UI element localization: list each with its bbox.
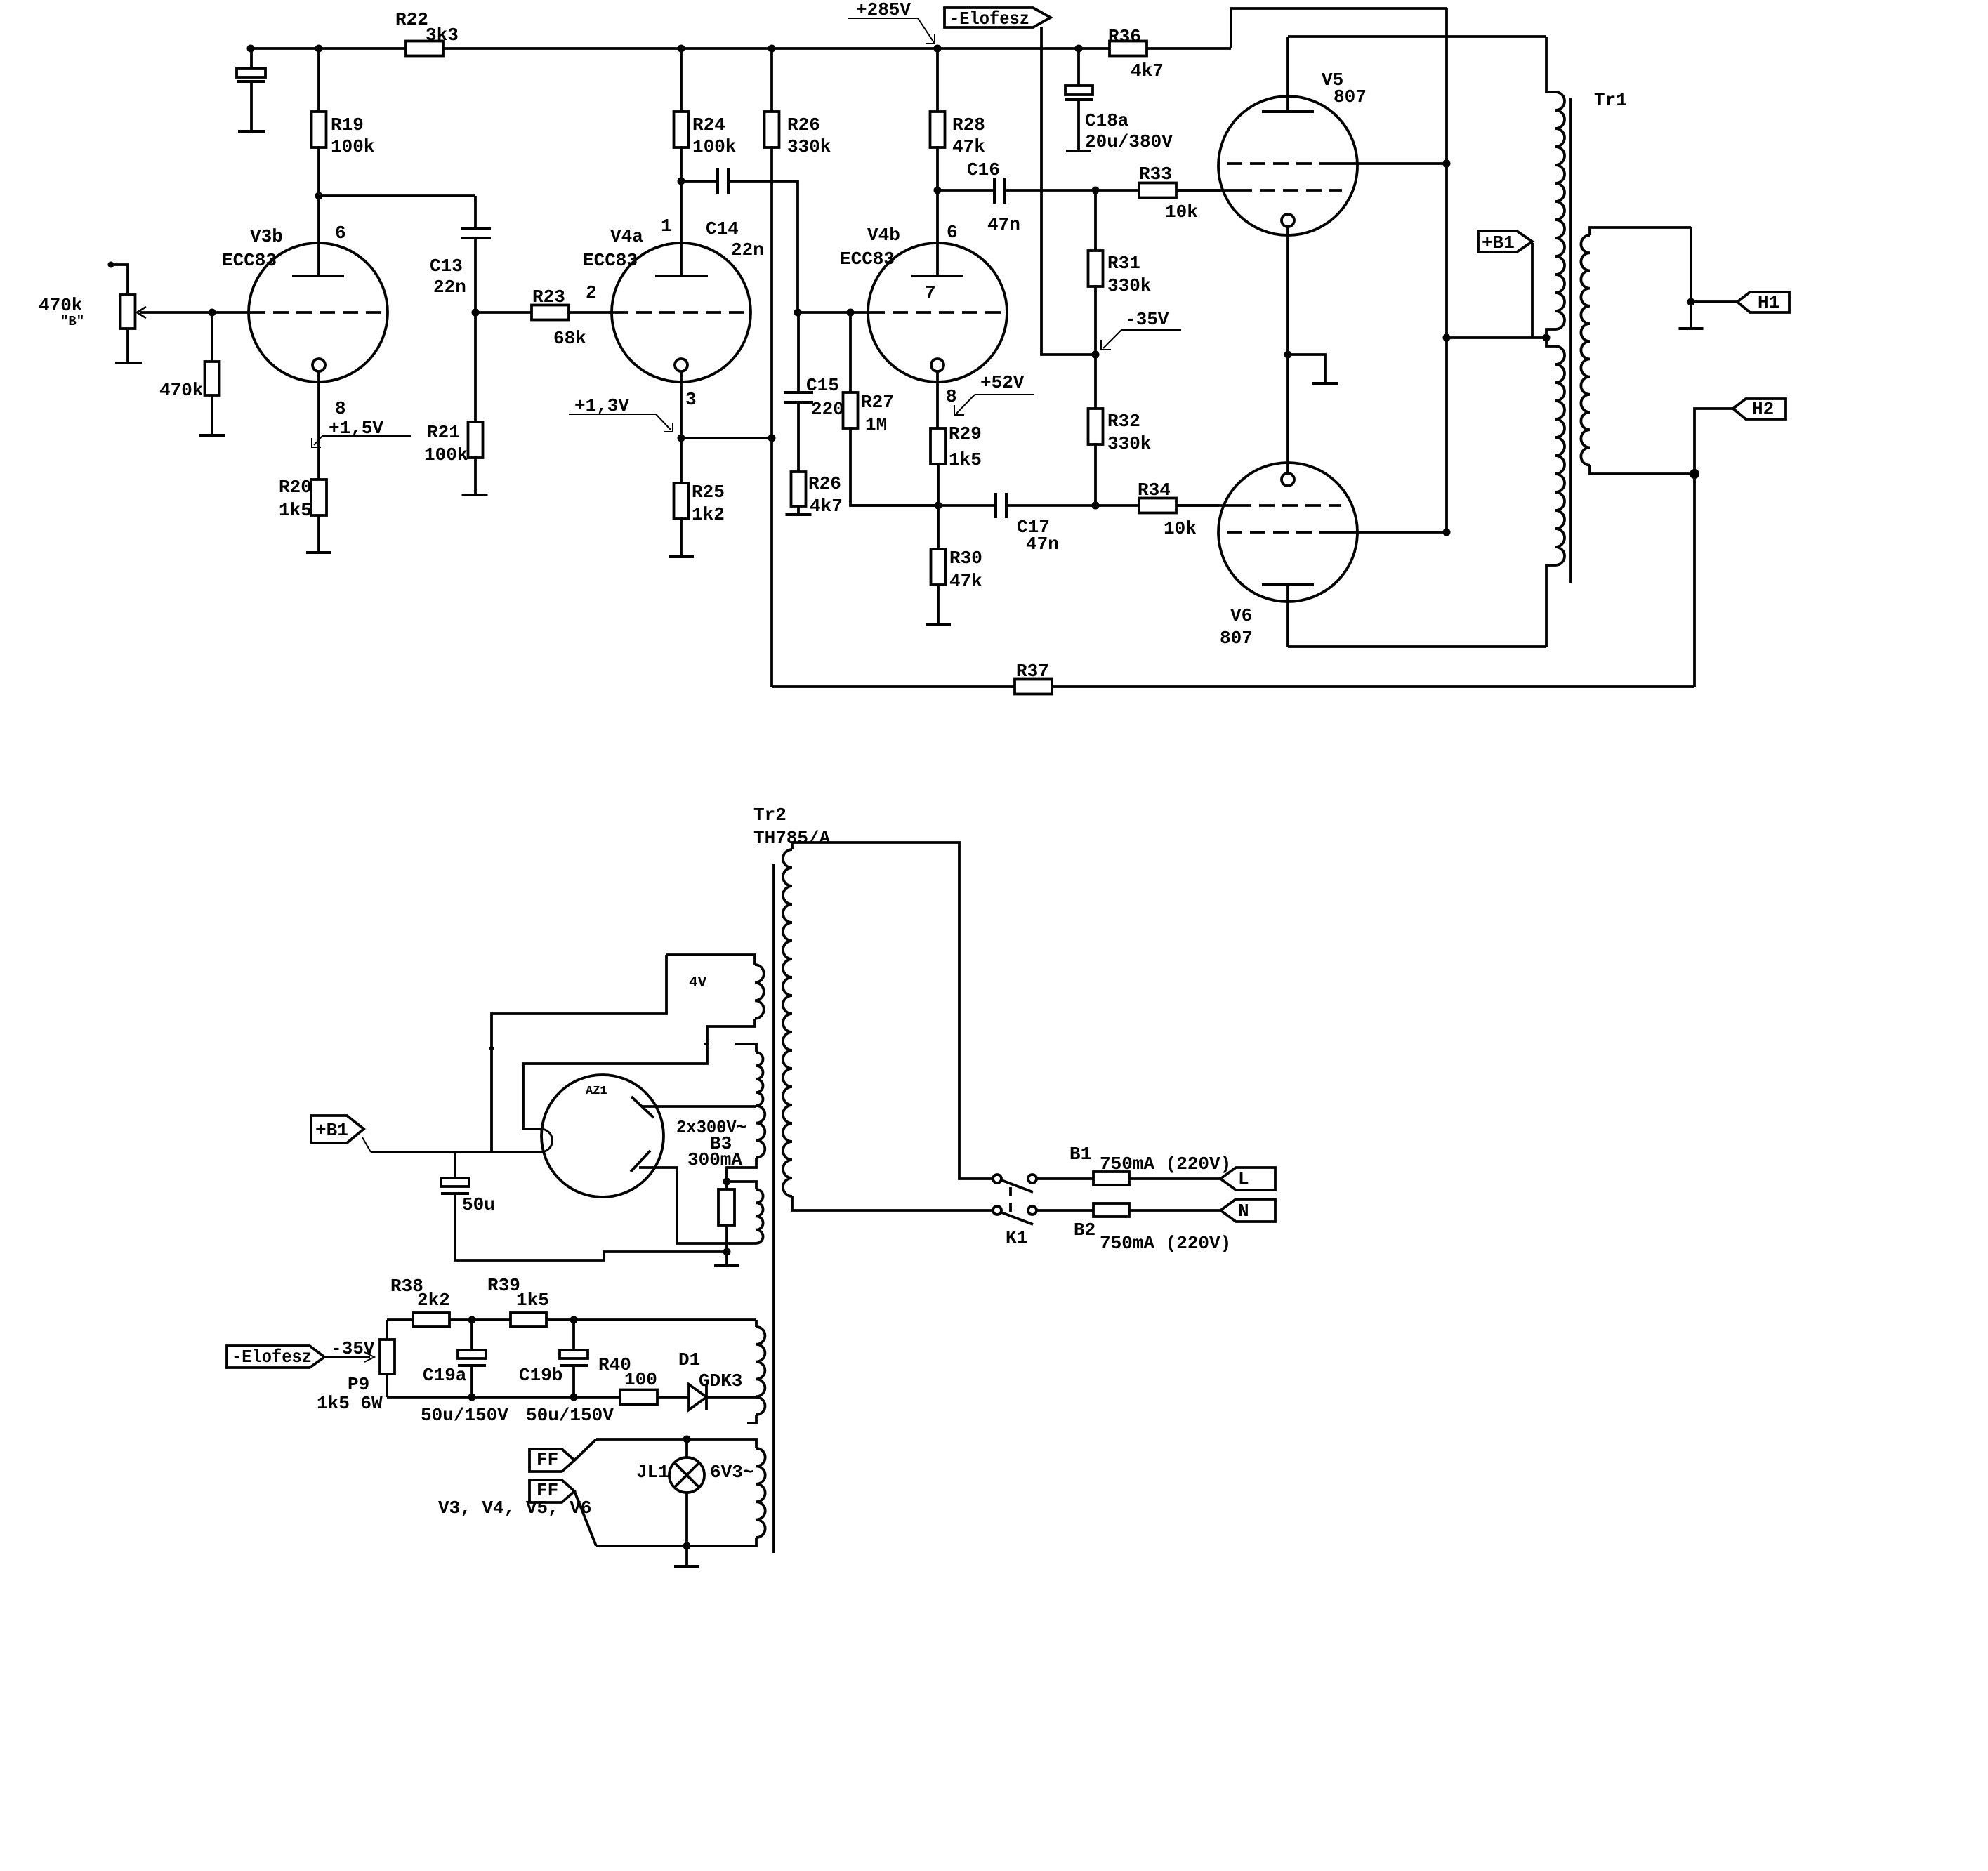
svg-text:R29: R29: [949, 423, 982, 444]
resistor R19: [317, 48, 320, 112]
net -Elofesz (top): [944, 8, 1051, 27]
svg-text:R21: R21: [427, 422, 460, 443]
node screen line junctions: [1443, 160, 1451, 168]
svg-text:100k: 100k: [692, 136, 736, 157]
svg-text:-35V: -35V: [331, 1338, 375, 1359]
svg-text:1k5: 1k5: [279, 500, 312, 521]
svg-text:R36: R36: [1108, 26, 1141, 47]
net N terminal: [1220, 1199, 1275, 1222]
node lamp top junction: [683, 1436, 691, 1443]
wire V4b cathode lead: [936, 371, 939, 428]
svg-text:100k: 100k: [331, 136, 374, 157]
svg-text:Tr2: Tr2: [753, 805, 786, 826]
wire K1 upper to fuse B1: [1036, 1177, 1093, 1180]
wire feedback down to R37 line: [770, 438, 773, 687]
wire R39 to bias winding: [574, 1318, 756, 1321]
wire lower anode to HV bottom: [639, 1168, 756, 1243]
filament AZ1: [541, 1129, 553, 1152]
svg-text:22n: 22n: [731, 239, 764, 260]
tube AZ1 rectifier: [541, 1075, 664, 1197]
svg-text:R30: R30: [949, 548, 982, 569]
wire V5 anode to Tr1: [1288, 35, 1546, 38]
svg-text:330k: 330k: [1107, 433, 1151, 454]
ground R25: [669, 555, 694, 558]
resistor R31: [1094, 190, 1097, 251]
svg-text:1k5 6W: 1k5 6W: [317, 1393, 383, 1414]
ground JL1: [685, 1546, 688, 1566]
svg-text:-Elofesz: -Elofesz: [949, 8, 1029, 29]
svg-text:C19a: C19a: [423, 1365, 466, 1386]
svg-text:1k5: 1k5: [516, 1290, 549, 1311]
tube V6 807: [1218, 463, 1357, 602]
node C14 tap: [678, 178, 685, 185]
svg-text:807: 807: [1220, 628, 1253, 649]
wire +B1 flag lead: [1531, 243, 1534, 338]
resistor R32: [1094, 355, 1097, 409]
resistor R27: [849, 312, 852, 392]
resistor R33: [1139, 183, 1176, 198]
resistor R34: [1139, 498, 1176, 513]
svg-text:3k3: 3k3: [426, 25, 459, 46]
capacitor C19b: [572, 1320, 575, 1350]
svg-text:C13: C13: [430, 256, 463, 277]
capacitor C18a: [1077, 48, 1080, 86]
winding Tr2 bias (D1): [755, 1320, 758, 1327]
svg-text:V4a: V4a: [610, 226, 643, 247]
svg-text:R28: R28: [952, 114, 985, 135]
ground R21: [462, 494, 488, 496]
winding Tr2 HV mid: [756, 1106, 765, 1158]
resistor R36: [1110, 41, 1147, 56]
wire V4b grid: [798, 311, 868, 314]
winding Tr2 4V filament: [666, 955, 755, 965]
svg-text:ECC83: ECC83: [222, 250, 277, 271]
net L terminal: [1220, 1168, 1275, 1190]
net FF upper: [529, 1449, 574, 1472]
svg-text:1k5: 1k5: [949, 449, 982, 470]
resistor 470k grid leak: [211, 312, 213, 362]
svg-text:C18a: C18a: [1085, 110, 1128, 131]
svg-text:R24: R24: [692, 114, 725, 135]
ground C18a: [1066, 150, 1091, 152]
winding Tr2 heater 6V3: [596, 1439, 756, 1448]
svg-text:-Elofesz: -Elofesz: [232, 1347, 312, 1368]
tube V4a ECC83: [612, 243, 751, 382]
node lamp bottom junction: [683, 1542, 691, 1550]
anode AZ1 lower: [631, 1151, 650, 1172]
ground H1: [1690, 302, 1692, 329]
resistor R28: [936, 48, 939, 112]
capacitor C13: [474, 196, 477, 229]
svg-text:1: 1: [661, 216, 672, 237]
svg-text:Tr1: Tr1: [1594, 90, 1627, 111]
wire V3b anode lead: [317, 196, 320, 276]
potentiometer P9 1k5 6W: [380, 1340, 395, 1374]
svg-text:+B1: +B1: [1482, 232, 1515, 253]
tube V5 807: [1218, 96, 1357, 235]
wire tick 2: [704, 1043, 709, 1045]
wire cathode to ground jog: [1288, 355, 1325, 383]
svg-text:50u/150V: 50u/150V: [526, 1405, 614, 1426]
svg-text:330k: 330k: [787, 136, 831, 157]
wire V5 control grid g1: [1176, 189, 1237, 192]
wire top +285V rail y=69: [251, 47, 406, 50]
svg-text:750mA (220V): 750mA (220V): [1100, 1233, 1231, 1254]
node H2 junction: [1690, 469, 1699, 479]
wire V3b cathode lead: [317, 371, 320, 480]
net H2: [1733, 399, 1786, 419]
svg-text:FF: FF: [537, 1449, 558, 1470]
resistor R20: [311, 480, 327, 515]
resistor R21: [474, 312, 477, 422]
wire FF upper lead: [574, 1439, 596, 1460]
winding Tr2 primary: [783, 849, 792, 1196]
svg-text:R33: R33: [1139, 164, 1172, 185]
resistor R30: [937, 505, 940, 549]
svg-text:470k: 470k: [159, 380, 203, 401]
svg-text:R26: R26: [787, 114, 820, 135]
wire Tr2 primary bottom lead: [792, 1196, 993, 1210]
svg-text:L: L: [1238, 1168, 1249, 1189]
fuse B3: [725, 1168, 728, 1266]
ground R26 4k7: [786, 513, 812, 516]
wire D1 tap: [706, 1396, 756, 1399]
wire screen-grid vertical x=2060: [1445, 8, 1448, 532]
capacitor C17: [994, 493, 997, 518]
wire -35V bottom rail: [387, 1396, 620, 1399]
net +B1 (top): [1478, 231, 1532, 252]
wire V5 screen grid g2: [1227, 162, 1333, 165]
node R31 top junction: [1092, 187, 1100, 194]
node -35V junction: [1092, 351, 1100, 359]
potentiometer 470k "B" input: [108, 262, 114, 268]
resistor R39: [472, 1318, 511, 1321]
net FF lower: [529, 1480, 574, 1502]
ground input pot: [115, 362, 142, 364]
svg-text:R26: R26: [808, 473, 841, 494]
wire V4a grid dashes: [613, 311, 749, 314]
svg-text:B2: B2: [1074, 1219, 1095, 1241]
resistor R29: [930, 428, 946, 464]
svg-text:C16: C16: [967, 159, 1000, 180]
node V3b anode junction: [315, 192, 323, 200]
node V4b anode C16 tap: [934, 187, 942, 194]
svg-text:47k: 47k: [949, 571, 982, 592]
svg-text:300mA: 300mA: [687, 1149, 742, 1170]
svg-text:+52V: +52V: [980, 372, 1025, 393]
svg-text:ECC83: ECC83: [840, 249, 895, 270]
ground R20: [306, 551, 331, 554]
wire V5 anode lead: [1286, 37, 1289, 112]
wire cathode junction to 330k line: [681, 437, 772, 439]
wire 4V top to +B1 node: [492, 955, 666, 1152]
wire V4b plate bar: [911, 275, 963, 277]
wire anode node to C13: [319, 194, 475, 197]
svg-text:6: 6: [947, 222, 958, 243]
lamp JL1 6V3~: [669, 1457, 704, 1493]
wire R23 to V4a grid: [567, 311, 612, 314]
cathode V4a: [675, 359, 687, 371]
node C19b bottom junction: [570, 1394, 578, 1401]
capacitor C16: [937, 189, 994, 192]
svg-text:100: 100: [624, 1369, 657, 1390]
svg-text:+1,3V: +1,3V: [574, 395, 629, 416]
svg-text:47n: 47n: [987, 214, 1020, 235]
node Tr1 center tap +B1: [1543, 334, 1551, 342]
wire Tr2 primary top lead: [792, 842, 993, 1179]
svg-text:V6: V6: [1230, 605, 1252, 626]
wire C17/R34 row y=720: [850, 504, 996, 507]
svg-text:8: 8: [335, 398, 346, 419]
cathode V4b: [931, 359, 944, 371]
resistor R37: [1015, 680, 1052, 694]
svg-text:ECC83: ECC83: [583, 250, 638, 271]
svg-text:B1: B1: [1069, 1144, 1091, 1165]
svg-text:K1: K1: [1006, 1227, 1027, 1248]
svg-text:R22: R22: [395, 9, 428, 30]
wire V4a cathode lead: [680, 371, 683, 438]
svg-text:330k: 330k: [1107, 275, 1151, 296]
node H1 junction: [1687, 298, 1695, 306]
fuse B2 750mA: [1093, 1203, 1129, 1217]
svg-text:+285V: +285V: [856, 0, 911, 20]
wire V5 cathode lead: [1286, 227, 1289, 355]
svg-text:4V: 4V: [689, 975, 707, 991]
wire +B1 to AZ1 filament: [362, 1137, 371, 1152]
svg-text:R27: R27: [861, 392, 894, 413]
svg-text:JL1: JL1: [636, 1462, 669, 1483]
svg-text:68k: 68k: [553, 328, 586, 349]
wire feedback line R37: [1693, 474, 1696, 687]
svg-text:10k: 10k: [1164, 518, 1197, 539]
wire V4a plate bar: [655, 275, 708, 277]
svg-text:R34: R34: [1138, 480, 1171, 501]
wire K1 lower to fuse B2: [1036, 1209, 1093, 1212]
node R39 right junction: [570, 1316, 578, 1324]
svg-text:D1: D1: [678, 1349, 700, 1370]
wire V6 plate lead: [1262, 583, 1314, 586]
resistor R26 330k: [770, 48, 773, 112]
svg-text:V3b: V3b: [250, 226, 283, 247]
winding Tr1 primary upper: [1555, 92, 1565, 329]
fuse B1 750mA: [1093, 1172, 1129, 1185]
svg-text:807: 807: [1334, 86, 1367, 107]
winding Tr1 primary lower: [1555, 346, 1565, 565]
svg-text:V4b: V4b: [867, 225, 900, 246]
wire upper anode to HV tap: [641, 1105, 756, 1108]
svg-text:C19b: C19b: [519, 1365, 562, 1386]
diode D1 GDK3: [689, 1384, 706, 1410]
winding Tr2 HV upper: [735, 1044, 756, 1052]
node rail junctions: [247, 45, 255, 53]
ground output cathodes: [1312, 382, 1338, 385]
ground input cap: [238, 130, 265, 133]
switch K1: [993, 1175, 1001, 1183]
cathode V6: [1282, 473, 1294, 486]
net H1: [1737, 292, 1789, 312]
svg-text:R20: R20: [279, 477, 312, 498]
wire V3b grid dashes: [250, 311, 385, 314]
resistor R22: [406, 41, 443, 56]
svg-text:R23: R23: [532, 286, 565, 308]
wire H1 lead: [1690, 227, 1692, 302]
node V4a cathode junction: [678, 435, 685, 442]
svg-text:6V3~: 6V3~: [710, 1462, 753, 1483]
svg-text:R25: R25: [692, 482, 725, 503]
capacitor C19a: [470, 1320, 473, 1350]
capacitor C14: [681, 180, 718, 183]
wire tick: [489, 1047, 494, 1050]
anode AZ1 upper: [631, 1097, 654, 1118]
svg-text:+B1: +B1: [315, 1120, 348, 1141]
node grid junction: [209, 309, 216, 317]
svg-text:3: 3: [685, 389, 697, 410]
svg-text:220: 220: [811, 399, 844, 420]
svg-text:7: 7: [925, 282, 936, 303]
svg-text:1k2: 1k2: [692, 504, 725, 525]
resistor R24: [680, 48, 683, 112]
wire +B1 tap to screen line: [1447, 336, 1546, 339]
resistor R25: [680, 438, 683, 483]
node R32 bottom junction: [1092, 502, 1100, 510]
svg-text:10k: 10k: [1165, 201, 1198, 223]
resistor R26 4k7: [791, 472, 806, 506]
svg-text:P9: P9: [348, 1374, 369, 1395]
winding Tr2 HV lower: [756, 1189, 763, 1243]
svg-text:H2: H2: [1752, 399, 1774, 420]
svg-text:V3, V4, V5, V6: V3, V4, V5, V6: [438, 1498, 591, 1519]
wire Tr1 primary top lead: [1546, 37, 1555, 92]
svg-text:R39: R39: [487, 1275, 520, 1296]
ground B3: [714, 1264, 739, 1267]
node R38/R39 junction: [468, 1316, 476, 1324]
node C13 junction: [472, 309, 480, 317]
node cathode junction V5/V6: [1284, 351, 1292, 359]
wire C13 to R23: [475, 311, 532, 314]
winding Tr1 secondary: [1590, 227, 1691, 235]
tube V4b ECC83: [868, 243, 1007, 382]
capacitor 50u: [454, 1152, 456, 1178]
wire V4b grid dashes: [869, 311, 1006, 314]
svg-text:4k7: 4k7: [810, 496, 843, 517]
svg-text:470k: 470k: [39, 295, 82, 316]
svg-text:-35V: -35V: [1125, 309, 1169, 330]
core Tr1: [1569, 98, 1572, 583]
svg-text:750mA (220V): 750mA (220V): [1100, 1153, 1231, 1175]
cathode V5: [1282, 214, 1294, 227]
svg-text:47k: 47k: [952, 136, 985, 157]
svg-text:1M: 1M: [865, 414, 887, 435]
svg-text:22n: 22n: [433, 277, 466, 298]
ground R30: [926, 623, 951, 626]
svg-text:R32: R32: [1107, 411, 1140, 432]
node feedback junction: [768, 435, 776, 442]
svg-text:2: 2: [586, 282, 597, 303]
svg-text:50u/150V: 50u/150V: [421, 1405, 508, 1426]
svg-text:R19: R19: [331, 114, 364, 135]
svg-text:C14: C14: [706, 218, 739, 239]
tube V3b ECC83: [249, 243, 388, 382]
svg-text:4k7: 4k7: [1131, 60, 1164, 81]
svg-text:AZ1: AZ1: [586, 1085, 607, 1098]
node V4b grid junctions: [794, 309, 802, 317]
wire center tap to winding: [727, 1182, 756, 1189]
node HV center tap: [723, 1178, 731, 1186]
wire FF lower lead: [574, 1491, 596, 1546]
svg-text:47n: 47n: [1026, 534, 1059, 555]
cathode V3b: [312, 359, 325, 371]
svg-text:H1: H1: [1758, 292, 1779, 313]
wire V6 screen grid g2: [1227, 531, 1333, 534]
svg-text:50u: 50u: [462, 1194, 495, 1215]
svg-text:6: 6: [335, 223, 346, 244]
svg-text:R37: R37: [1016, 661, 1049, 682]
wire V6 cathode lead: [1286, 355, 1289, 473]
ground 470k grid leak: [199, 434, 225, 437]
wire wiper arrow to grid: [140, 311, 249, 314]
svg-text:"B": "B": [60, 314, 84, 329]
node B3 bottom junction: [723, 1248, 731, 1256]
svg-text:R31: R31: [1107, 253, 1140, 274]
svg-text:N: N: [1238, 1201, 1249, 1222]
node C19a bottom junction: [468, 1394, 476, 1401]
svg-text:100k: 100k: [424, 444, 468, 465]
svg-text:GDK3: GDK3: [699, 1370, 742, 1391]
resistor R38: [413, 1313, 449, 1327]
svg-text:C15: C15: [806, 375, 839, 396]
resistor R40: [620, 1390, 657, 1405]
wire P9 top to R38: [387, 1318, 413, 1321]
net -Elofesz (bottom): [227, 1346, 324, 1368]
svg-text:8: 8: [946, 386, 957, 407]
wire V6 control grid g1: [1176, 504, 1236, 507]
core Tr2: [772, 864, 775, 1553]
svg-text:20u/380V: 20u/380V: [1085, 131, 1173, 152]
resistor R23: [532, 305, 569, 320]
node R29 bottom junction: [935, 502, 942, 510]
wire H2 lead: [1694, 409, 1733, 474]
capacitor input electrolytic (top-left): [250, 48, 253, 68]
svg-text:2k2: 2k2: [417, 1290, 450, 1311]
wire V6 plate to Tr1 bottom: [1288, 645, 1546, 648]
capacitor C15: [797, 312, 800, 392]
net +B1 (bottom): [311, 1116, 364, 1143]
wire -Elofesz vertical: [1041, 27, 1093, 355]
